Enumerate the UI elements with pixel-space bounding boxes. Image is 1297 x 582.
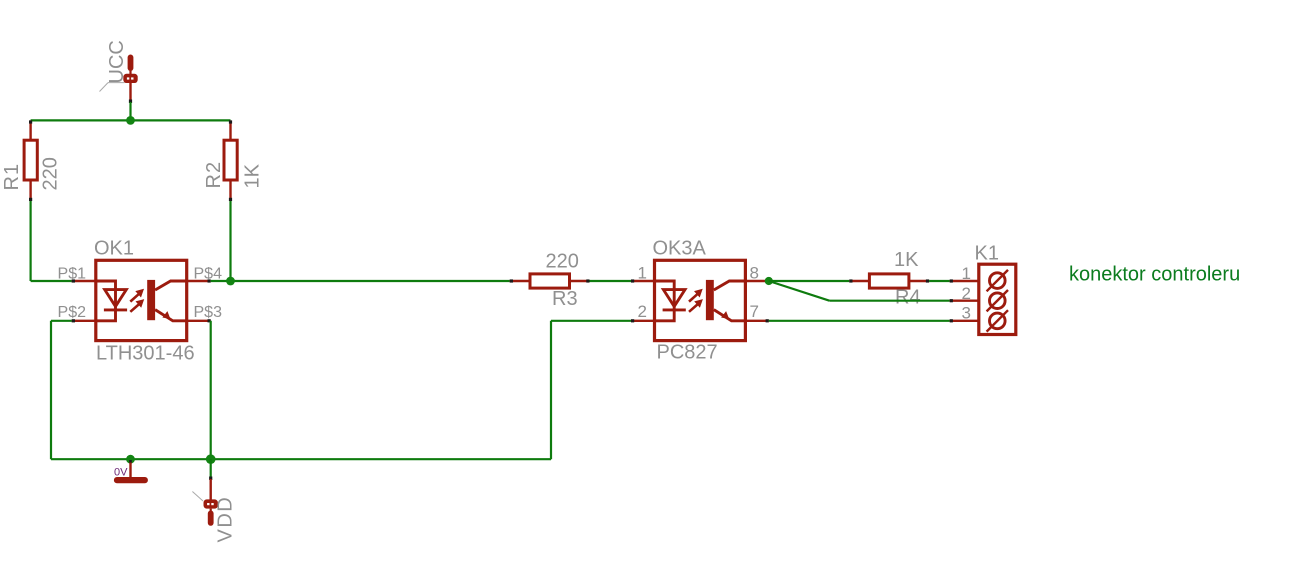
svg-text:P$3: P$3 bbox=[194, 304, 223, 321]
OK3A pin 7 bbox=[745, 320, 768, 322]
svg-text:PC827: PC827 bbox=[657, 342, 718, 364]
resistor R3 220 bbox=[510, 251, 590, 311]
wire OK1 P$4 to R3 bbox=[211, 280, 510, 282]
svg-text:P$2: P$2 bbox=[58, 304, 87, 321]
svg-text:2: 2 bbox=[962, 284, 971, 303]
OK1 LED bbox=[96, 281, 116, 321]
OK3A phototransistor bbox=[706, 280, 714, 320]
wire bottom horizontal bbox=[51, 458, 551, 460]
resistor R4 1K bbox=[849, 249, 929, 309]
svg-text:0V: 0V bbox=[114, 467, 128, 479]
wire R4 to K1 pin1 bbox=[929, 280, 950, 282]
OK1 light arrows bbox=[130, 294, 139, 302]
wire to K1 pin2 bbox=[829, 300, 949, 302]
wire pin7 to K1 pin3 bbox=[769, 320, 950, 322]
svg-text:220: 220 bbox=[546, 251, 579, 273]
wire to OK3A pin2 bbox=[551, 320, 631, 322]
OK3A LED bbox=[655, 281, 675, 321]
OK1 pin P$4 bbox=[187, 280, 211, 282]
OK3A pin 8 bbox=[745, 280, 768, 282]
wire diagonal pin8 bbox=[769, 281, 830, 301]
svg-text:R1: R1 bbox=[1, 163, 23, 191]
svg-text:8: 8 bbox=[750, 264, 759, 283]
svg-text:1: 1 bbox=[962, 264, 971, 283]
wire P$2 left bbox=[51, 320, 72, 322]
wire to OK1 pin1 bbox=[31, 280, 72, 282]
wire top horizontal bbox=[31, 119, 231, 121]
wire R2 down bbox=[229, 201, 231, 281]
svg-text:R2: R2 bbox=[203, 161, 225, 189]
wire left down bbox=[50, 321, 52, 459]
svg-text:OK3A: OK3A bbox=[653, 238, 707, 260]
OK1 pin P$2 bbox=[72, 320, 96, 322]
K1 pin 1 bbox=[950, 280, 979, 282]
svg-text:220: 220 bbox=[40, 157, 62, 190]
K1 pin 3 bbox=[950, 320, 979, 322]
connector K1 bbox=[950, 243, 1016, 335]
OK3A pin 1 bbox=[631, 280, 655, 282]
svg-text:VDD: VDD bbox=[215, 496, 237, 543]
svg-text:P$1: P$1 bbox=[58, 266, 87, 283]
K1 pin 2 bbox=[950, 300, 979, 302]
OK3A pin 2 bbox=[631, 320, 655, 322]
op-to OK3A optocoupler PC827 bbox=[631, 238, 769, 364]
resistor R2 bbox=[203, 120, 264, 201]
svg-text:LTH301-46: LTH301-46 bbox=[96, 343, 195, 365]
OK3A light arrows bbox=[689, 294, 698, 302]
svg-text:K1: K1 bbox=[975, 243, 999, 265]
OK1 box bbox=[96, 260, 187, 340]
wire left vertical bbox=[30, 201, 32, 281]
svg-text:konektor controleru: konektor controleru bbox=[1069, 264, 1240, 286]
pin end tick UCC bbox=[129, 100, 132, 104]
svg-text:1K: 1K bbox=[242, 163, 264, 188]
wire right up bbox=[550, 321, 552, 459]
svg-text:3: 3 bbox=[962, 304, 971, 323]
K1 box bbox=[979, 264, 1016, 334]
svg-text:1: 1 bbox=[638, 264, 647, 283]
wire P$3 down bbox=[210, 321, 212, 459]
svg-text:OK1: OK1 bbox=[94, 238, 134, 260]
junction ground bbox=[126, 455, 135, 464]
svg-text:2: 2 bbox=[638, 302, 647, 321]
svg-text:UCC: UCC bbox=[106, 40, 128, 83]
supply UCC bbox=[100, 40, 138, 100]
junction pin8 bbox=[765, 277, 773, 285]
resistor R1 bbox=[1, 120, 62, 201]
OK3A box bbox=[655, 260, 746, 340]
OK1 phototransistor bbox=[147, 280, 155, 320]
K1 contact circle 2 bbox=[990, 293, 1006, 309]
junction at R2 bottom bbox=[226, 277, 235, 286]
op-to OK1 optocoupler LTH301-46 bbox=[58, 238, 223, 365]
wire pin8 to R4 bbox=[769, 280, 850, 282]
ground 0V symbol bbox=[114, 460, 148, 483]
svg-text:R3: R3 bbox=[552, 288, 578, 310]
K1 contact circle 1 bbox=[990, 273, 1006, 289]
wire UCC stub bbox=[129, 102, 131, 120]
K1 contact circle 3 bbox=[990, 313, 1006, 329]
svg-text:7: 7 bbox=[750, 302, 759, 321]
junction top bbox=[126, 116, 135, 125]
svg-text:1K: 1K bbox=[894, 249, 919, 271]
svg-text:R4: R4 bbox=[895, 287, 921, 309]
OK1 pin P$3 bbox=[187, 320, 211, 322]
supply VDD bbox=[192, 459, 236, 542]
junction VDD bbox=[206, 454, 216, 464]
OK1 pin P$1 bbox=[72, 280, 96, 282]
wire R3 to OK3A pin1 bbox=[590, 280, 632, 282]
